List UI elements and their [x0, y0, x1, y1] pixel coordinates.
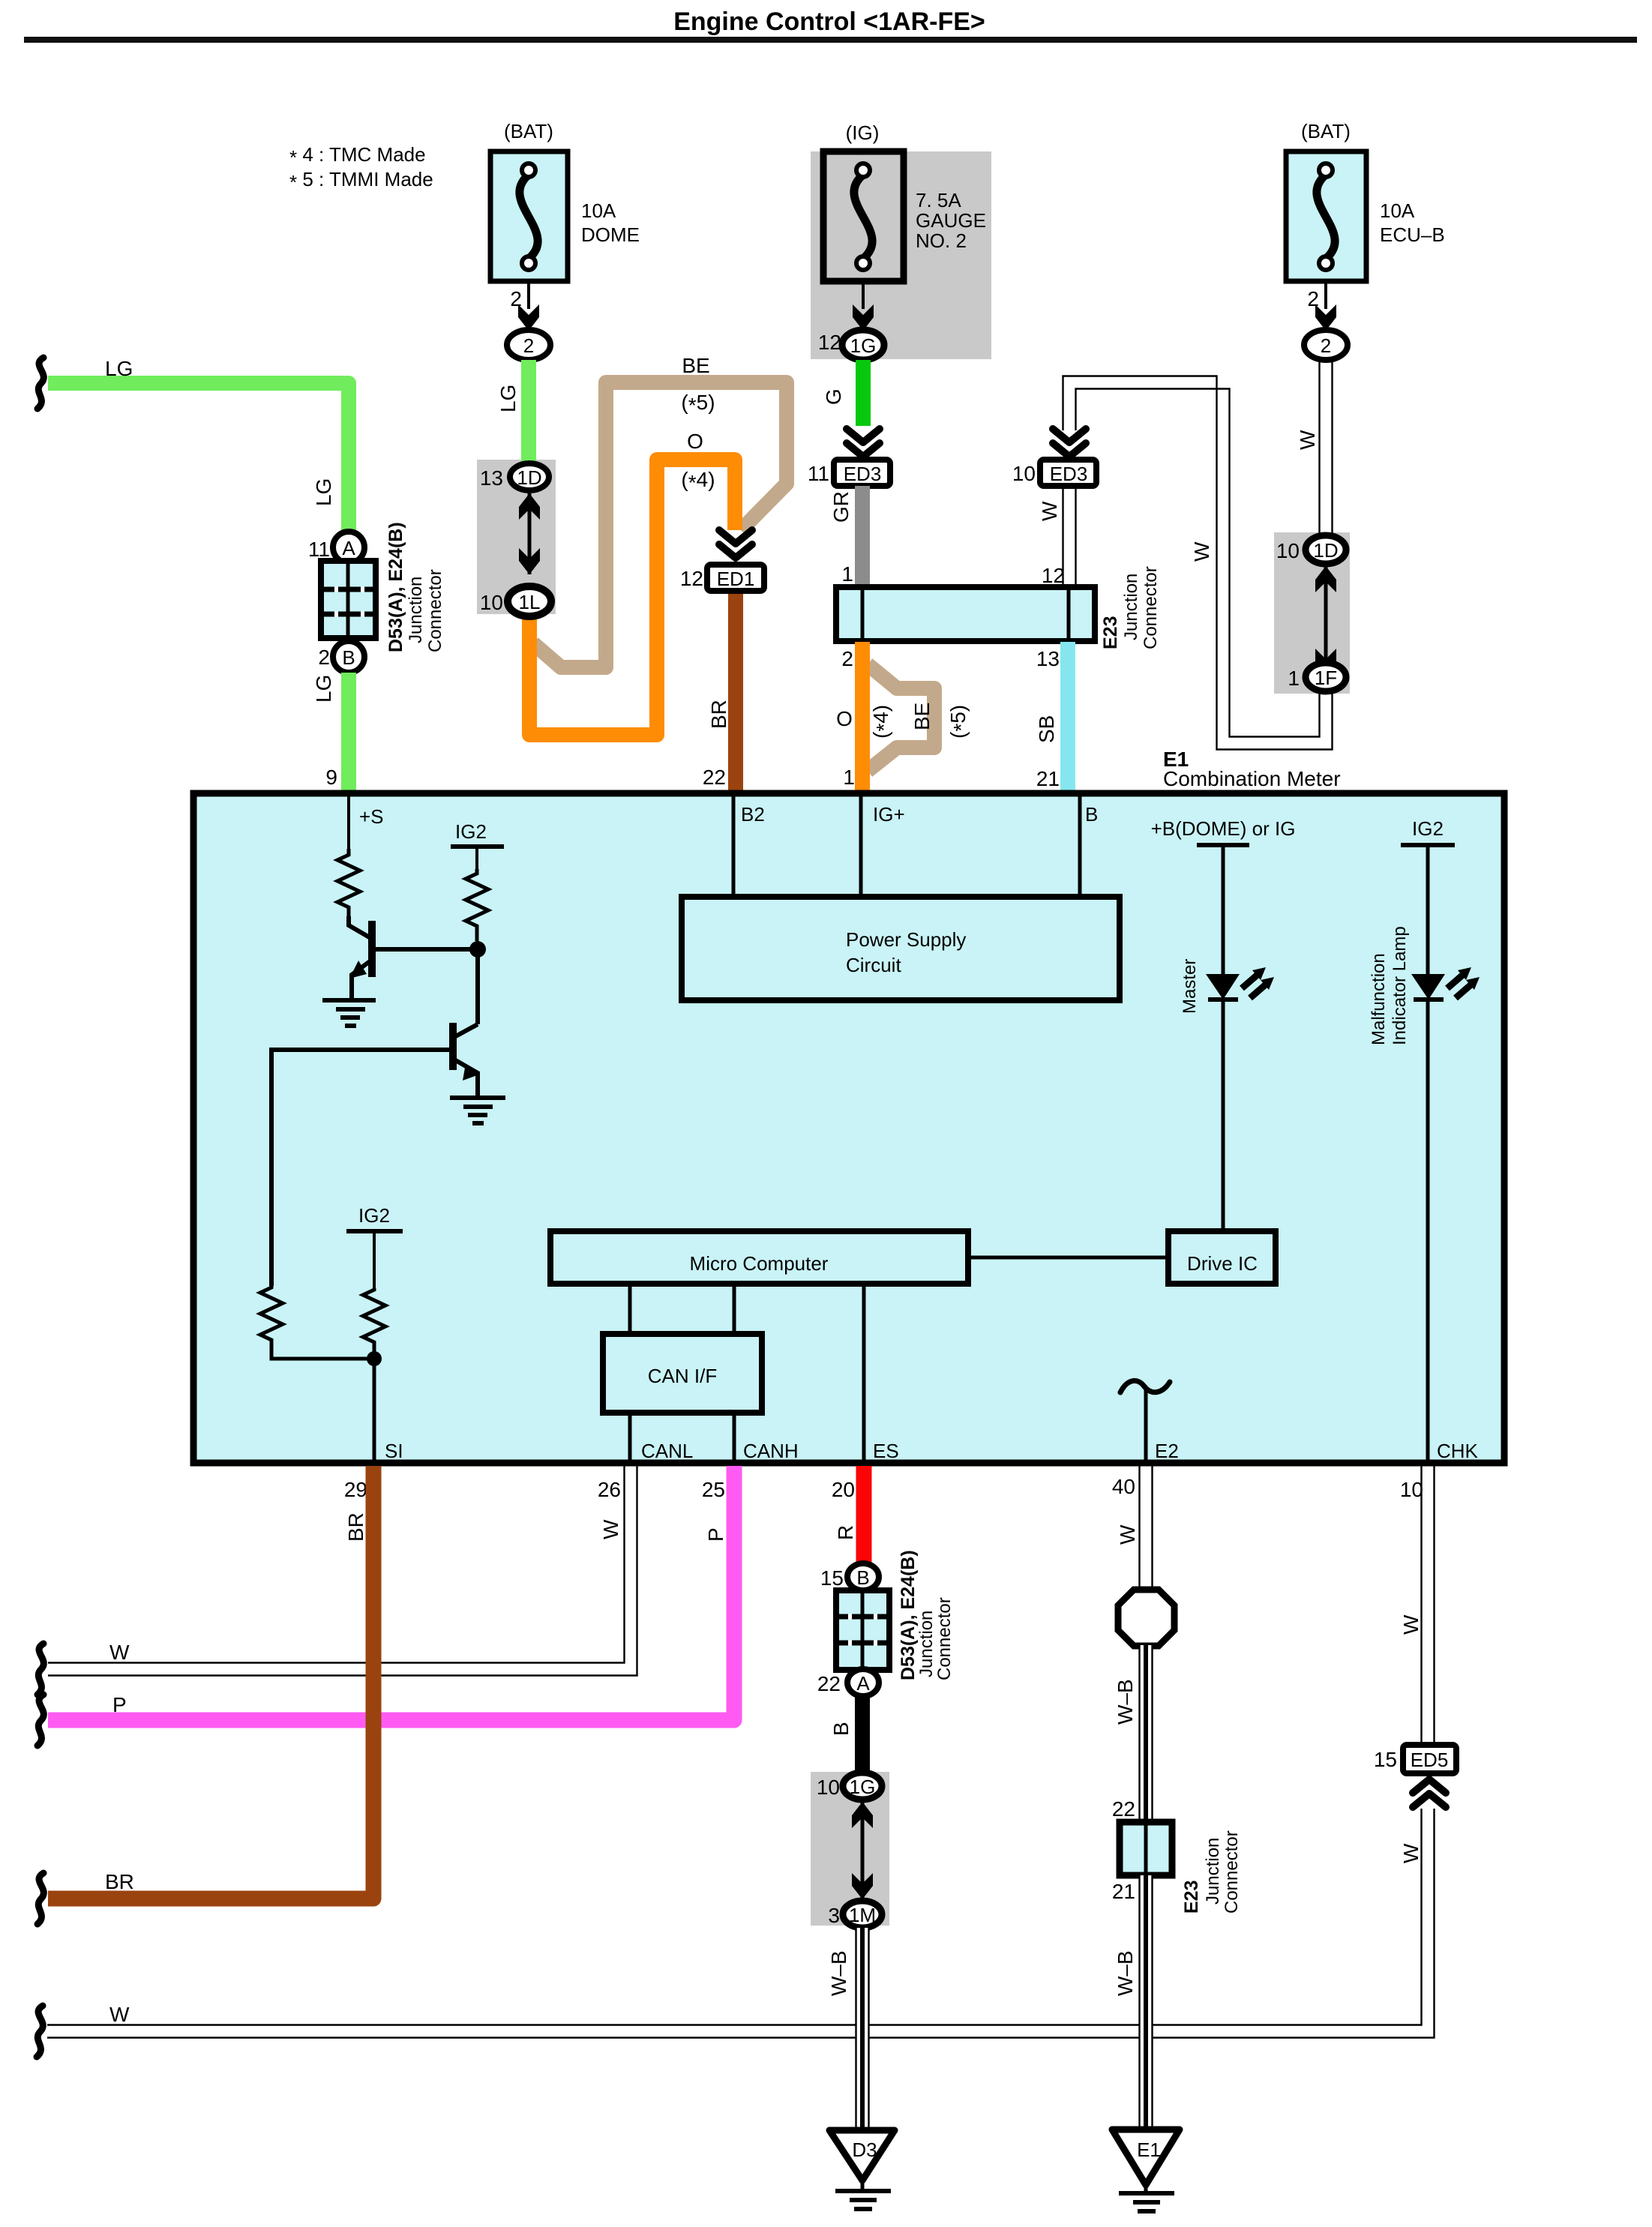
- svg-text:15: 15: [820, 1566, 844, 1590]
- wire fuse ECU-B to terminal: [1324, 281, 1327, 309]
- pin B wire: [1078, 796, 1082, 897]
- svg-text:Power Supply: Power Supply: [846, 928, 966, 951]
- wire CANH pin: [733, 1413, 736, 1463]
- svg-text:Junction: Junction: [406, 577, 426, 643]
- wire SB to meter pin 21: [1060, 642, 1075, 792]
- svg-text:E1: E1: [1137, 2139, 1161, 2161]
- svg-text:GR: GR: [829, 491, 853, 523]
- connector ellipse B: [847, 1563, 879, 1590]
- svg-text:21: 21: [1036, 767, 1060, 790]
- wire W from CHK pin 10: [1422, 1466, 1435, 1745]
- svg-text:BE: BE: [682, 354, 709, 377]
- wire W bottom run to ED5: [47, 1809, 1435, 2038]
- wire W ECU-B to 1D: [1320, 360, 1333, 537]
- title rule: [24, 37, 1637, 43]
- wire W from pin 26: [48, 1466, 637, 1676]
- svg-text:(BAT): (BAT): [1301, 120, 1351, 142]
- svg-text:BE: BE: [910, 703, 934, 730]
- svg-text:Circuit: Circuit: [846, 954, 901, 976]
- svg-text:W: W: [1038, 501, 1061, 521]
- junction connector E23 bar: [836, 587, 1095, 641]
- wire W-B octagon to E23: [1140, 1645, 1153, 1822]
- wire LED to drive IC: [1222, 1000, 1225, 1231]
- wire CANL pin: [628, 1413, 632, 1463]
- resistor at +S: [347, 796, 350, 849]
- svg-text:LG: LG: [496, 385, 520, 412]
- svg-text:W: W: [1190, 541, 1213, 562]
- svg-text:CANL: CANL: [641, 1440, 693, 1462]
- svg-text:P: P: [704, 1527, 727, 1542]
- svg-text:Combination Meter: Combination Meter: [1163, 767, 1341, 790]
- gray panel behind 1D/1F connector: [1274, 532, 1350, 694]
- break squiggle P: [37, 1695, 43, 1746]
- wire GR: [855, 486, 870, 586]
- double arrow 1G-1M: [861, 1802, 865, 1899]
- break squiggle LG: [37, 358, 43, 409]
- wire LED to CHK pin: [1426, 1000, 1430, 1463]
- connector ellipse 1G lower: [843, 1773, 882, 1800]
- junction connector E23 small box: [1120, 1822, 1172, 1875]
- connector ED3 pin 10: [1040, 460, 1096, 486]
- svg-text:W: W: [109, 2003, 130, 2026]
- fuse 10A ECU-B: [1286, 120, 1445, 281]
- svg-text:A: A: [856, 1672, 870, 1695]
- wire BR to meter pin 22: [728, 594, 743, 792]
- svg-text:CAN I/F: CAN I/F: [648, 1365, 717, 1387]
- svg-text:W: W: [109, 1641, 130, 1664]
- junction connector D53(A) E24(B) grid box: [321, 561, 376, 638]
- wire E2 pin: [1144, 1389, 1148, 1463]
- svg-text:Drive IC: Drive IC: [1187, 1252, 1258, 1275]
- svg-text:W–B: W–B: [827, 1950, 850, 1996]
- svg-text:1F: 1F: [1315, 667, 1337, 689]
- double arrow 1D-1F: [1324, 566, 1328, 675]
- wire BE fork: [868, 664, 934, 771]
- svg-text:E2: E2: [1155, 1440, 1179, 1462]
- transistor Q2: [453, 1023, 478, 1098]
- svg-text:SB: SB: [1035, 715, 1058, 743]
- terminal arrow: [518, 304, 539, 331]
- svg-text:22: 22: [817, 1672, 841, 1695]
- svg-text:D3: D3: [852, 2139, 877, 2161]
- svg-text:+B(DOME) or IG: +B(DOME) or IG: [1151, 817, 1296, 840]
- svg-text:1L: 1L: [519, 591, 541, 613]
- LED Master: [1206, 967, 1274, 1000]
- svg-text:GAUGE: GAUGE: [916, 209, 986, 232]
- CAN I/F box: [603, 1334, 762, 1413]
- node SI junction dot: [367, 1351, 382, 1366]
- svg-text:Junction: Junction: [1121, 574, 1141, 640]
- wire to Q2 collector: [475, 949, 480, 1024]
- pin B2 wire: [732, 796, 736, 897]
- svg-text:ED3: ED3: [844, 463, 882, 485]
- connector ellipse 1L: [508, 586, 551, 616]
- wire Q2 base to resistor R1: [271, 1050, 450, 1286]
- connector ellipse 1G: [842, 330, 884, 360]
- svg-text:ED5: ED5: [1411, 1749, 1449, 1771]
- svg-text:W: W: [1399, 1614, 1423, 1635]
- wire BR from pin 29: [48, 1466, 373, 1899]
- connector ED1: [707, 565, 764, 591]
- svg-text:2: 2: [318, 646, 330, 669]
- svg-text:B: B: [1085, 803, 1098, 826]
- svg-text:10: 10: [480, 591, 503, 614]
- connector ellipse 2: [507, 330, 550, 360]
- svg-text:21: 21: [1112, 1880, 1135, 1903]
- svg-text:1G: 1G: [850, 1776, 876, 1798]
- svg-text:Connector: Connector: [934, 1597, 955, 1680]
- svg-text:W–B: W–B: [1114, 1950, 1137, 1996]
- svg-text:BR: BR: [344, 1512, 367, 1542]
- break squiggle W: [37, 1644, 43, 1695]
- svg-text:D53(A), E24(B): D53(A), E24(B): [385, 522, 406, 652]
- svg-text:1D: 1D: [517, 466, 541, 489]
- terminal arrow: [1315, 304, 1336, 331]
- chevron into ED3 pin 11: [847, 429, 880, 457]
- svg-text:9: 9: [325, 766, 337, 789]
- svg-text:E23: E23: [1181, 1881, 1202, 1914]
- wire P from pin 25: [48, 1466, 734, 1720]
- break squiggle W bottom: [37, 2006, 43, 2057]
- resistor R1: [260, 1286, 283, 1347]
- wire micro to drive IC: [968, 1256, 1168, 1260]
- svg-text:A: A: [342, 537, 355, 559]
- wire base node: [375, 947, 478, 952]
- wire B black: [855, 1696, 870, 1774]
- wire LG from left: [48, 383, 349, 535]
- connector ellipse A lower: [847, 1669, 879, 1696]
- svg-text:1G: 1G: [850, 334, 877, 357]
- resistor at IG2: [466, 869, 488, 941]
- connector ellipse 1D right: [1306, 535, 1346, 564]
- svg-text:O: O: [687, 430, 703, 453]
- svg-text:3: 3: [828, 1904, 840, 1927]
- svg-text:40: 40: [1112, 1475, 1135, 1498]
- svg-text:2: 2: [523, 334, 534, 357]
- svg-text:(*4): (*4): [869, 705, 895, 739]
- ground at Q1: [322, 1000, 376, 1026]
- svg-text:W: W: [1399, 1843, 1423, 1863]
- svg-text:11: 11: [808, 462, 829, 485]
- wire fuse GAUGE to terminal: [862, 281, 865, 309]
- svg-text:W: W: [1116, 1524, 1139, 1545]
- connector ellipse 1D: [510, 463, 549, 490]
- wire W from pin 40: [1140, 1466, 1153, 1593]
- svg-text:10: 10: [1012, 462, 1036, 485]
- double arrow 1D-1L: [528, 493, 532, 574]
- svg-text:Connector: Connector: [425, 569, 445, 652]
- svg-text:29: 29: [344, 1478, 367, 1501]
- svg-text:1: 1: [841, 562, 853, 586]
- svg-text:R: R: [834, 1525, 857, 1540]
- wire W loop from 1F to ED3 pin 10: [1063, 376, 1333, 750]
- svg-text:(*5): (*5): [681, 391, 715, 417]
- svg-text:Connector: Connector: [1141, 566, 1161, 649]
- wire ES pin: [862, 1284, 866, 1463]
- svg-text:LG: LG: [312, 478, 335, 506]
- svg-text:12: 12: [818, 331, 841, 354]
- wire W-B to ground D3: [856, 1928, 869, 2132]
- svg-text:CANH: CANH: [743, 1440, 799, 1462]
- svg-text:SI: SI: [385, 1440, 403, 1462]
- svg-text:G: G: [822, 388, 845, 405]
- power supply circuit box: [682, 897, 1120, 1000]
- connector ED3 pin 11: [834, 460, 890, 486]
- svg-text:13: 13: [1036, 647, 1060, 670]
- chevron into ED1: [719, 530, 752, 558]
- svg-text:NO. 2: NO. 2: [916, 229, 967, 252]
- svg-text:Junction: Junction: [1203, 1838, 1223, 1905]
- gray panel behind GAUGE fuse: [811, 151, 991, 359]
- drive IC box: [1168, 1231, 1276, 1284]
- fuse 7.5A GAUGE NO.2: [823, 121, 986, 281]
- svg-text:O: O: [836, 707, 853, 730]
- svg-text:B: B: [342, 646, 355, 669]
- svg-text:* 4 : TMC Made: * 4 : TMC Made: [289, 143, 426, 169]
- svg-text:+S: +S: [359, 805, 384, 828]
- svg-text:22: 22: [1112, 1797, 1135, 1821]
- svg-text:E23: E23: [1100, 616, 1121, 649]
- micro computer box: [550, 1231, 968, 1284]
- wire G: [856, 360, 871, 426]
- svg-text:10: 10: [817, 1776, 840, 1799]
- wire LG fuse branch: [521, 360, 536, 463]
- wire R from pin 20: [856, 1466, 872, 1564]
- wire O to meter IG+: [855, 642, 870, 792]
- svg-text:10: 10: [1276, 539, 1300, 562]
- svg-text:ES: ES: [873, 1440, 899, 1462]
- resistor R2: [363, 1288, 385, 1350]
- svg-text:1D: 1D: [1313, 539, 1338, 562]
- svg-text:B: B: [856, 1566, 869, 1589]
- wire fuse DOME to terminal: [527, 281, 530, 309]
- svg-text:11: 11: [308, 538, 330, 561]
- connector circle A: [333, 532, 364, 563]
- svg-text:IG2: IG2: [455, 820, 487, 843]
- svg-text:LG: LG: [105, 357, 133, 380]
- svg-text:2: 2: [841, 647, 853, 670]
- svg-text:22: 22: [703, 766, 726, 789]
- wire micro to CAN right: [733, 1284, 736, 1334]
- svg-text:BR: BR: [707, 700, 730, 729]
- svg-text:P: P: [112, 1693, 127, 1716]
- svg-text:Micro Computer: Micro Computer: [690, 1252, 829, 1275]
- svg-text:20: 20: [832, 1478, 855, 1501]
- ground D3: [829, 2130, 895, 2209]
- node junction dot: [469, 941, 486, 958]
- svg-text:Junction: Junction: [916, 1611, 937, 1677]
- svg-text:Connector: Connector: [1222, 1830, 1242, 1914]
- terminal arrow: [853, 304, 874, 331]
- svg-text:26: 26: [598, 1478, 621, 1501]
- chevron up into ED5: [1413, 1779, 1446, 1807]
- junction connector D53 E24 grid box lower: [836, 1590, 889, 1670]
- svg-text:13: 13: [480, 466, 503, 490]
- break squiggle BR: [37, 1873, 43, 1924]
- svg-text:(IG): (IG): [846, 121, 880, 144]
- gray panel behind 1G/1M connector: [811, 1772, 889, 1926]
- svg-text:BR: BR: [105, 1870, 134, 1893]
- svg-text:12: 12: [1042, 564, 1065, 587]
- wire W ED3 to E23 pin 12: [1063, 486, 1076, 586]
- LED malfunction indicator lamp: [1411, 967, 1480, 1000]
- svg-text:1M: 1M: [849, 1904, 876, 1926]
- gray panel behind 1D/1L connector: [477, 460, 556, 614]
- wire to SI pin: [373, 1350, 376, 1463]
- combination meter box E1: [193, 793, 1504, 1463]
- svg-text:W: W: [599, 1519, 622, 1539]
- connector circle B: [333, 641, 364, 673]
- svg-text:ED1: ED1: [717, 568, 755, 590]
- svg-text:7. 5A: 7. 5A: [916, 189, 961, 211]
- svg-text:1: 1: [843, 766, 855, 789]
- ground E1: [1112, 2130, 1180, 2211]
- svg-text:IG2: IG2: [358, 1204, 390, 1227]
- svg-text:ECU–B: ECU–B: [1380, 223, 1445, 246]
- svg-text:1: 1: [1288, 667, 1300, 690]
- svg-text:ED3: ED3: [1050, 463, 1088, 485]
- connector ellipse 1F: [1306, 663, 1346, 691]
- wire BE tan loop: [533, 382, 787, 667]
- svg-text:Engine Control <1AR-FE>: Engine Control <1AR-FE>: [673, 7, 985, 36]
- svg-text:(*5): (*5): [946, 705, 973, 739]
- svg-text:Indicator Lamp: Indicator Lamp: [1390, 926, 1410, 1045]
- ground at Q2: [450, 1098, 505, 1123]
- internal ground E2 squiggle: [1120, 1380, 1170, 1392]
- noise filter octagon: [1118, 1590, 1174, 1646]
- connector ellipse 1M: [843, 1901, 882, 1928]
- svg-text:W: W: [1296, 430, 1319, 450]
- wire W-B to ground E1: [1140, 1875, 1153, 2131]
- svg-text:Master: Master: [1180, 959, 1200, 1014]
- connector ellipse 2: [1304, 330, 1348, 360]
- svg-text:10: 10: [1400, 1478, 1423, 1501]
- svg-text:IG+: IG+: [873, 803, 905, 826]
- connector ED5: [1403, 1745, 1456, 1773]
- svg-text:W–B: W–B: [1114, 1679, 1137, 1725]
- transistor Q1: [349, 916, 372, 1000]
- wire LG to meter pin 9: [341, 673, 356, 792]
- svg-text:CHK: CHK: [1437, 1440, 1479, 1462]
- svg-text:B2: B2: [741, 803, 765, 826]
- wire O orange loop from 1L: [529, 460, 735, 735]
- svg-text:Malfunction: Malfunction: [1369, 953, 1389, 1045]
- wire R1 to SI node: [271, 1347, 374, 1359]
- svg-text:2: 2: [1321, 334, 1331, 357]
- svg-text:DOME: DOME: [581, 223, 640, 246]
- svg-text:IG2: IG2: [1412, 817, 1444, 840]
- svg-text:10A: 10A: [581, 199, 616, 222]
- pin IG+ wire: [859, 796, 863, 897]
- svg-text:10A: 10A: [1380, 199, 1415, 222]
- svg-text:12: 12: [680, 567, 703, 590]
- fuse 10A DOME: [490, 120, 640, 281]
- svg-text:D53(A), E24(B): D53(A), E24(B): [898, 1550, 919, 1680]
- svg-text:(*4): (*4): [681, 468, 715, 494]
- svg-text:15: 15: [1374, 1748, 1397, 1771]
- wire micro to CAN left: [628, 1284, 632, 1334]
- chevron into ED3 pin 10: [1053, 429, 1086, 457]
- svg-text:* 5 : TMMI Made: * 5 : TMMI Made: [289, 168, 433, 193]
- svg-text:LG: LG: [312, 675, 335, 703]
- svg-text:B: B: [829, 1722, 853, 1736]
- svg-text:(BAT): (BAT): [504, 120, 553, 142]
- svg-text:25: 25: [702, 1478, 725, 1501]
